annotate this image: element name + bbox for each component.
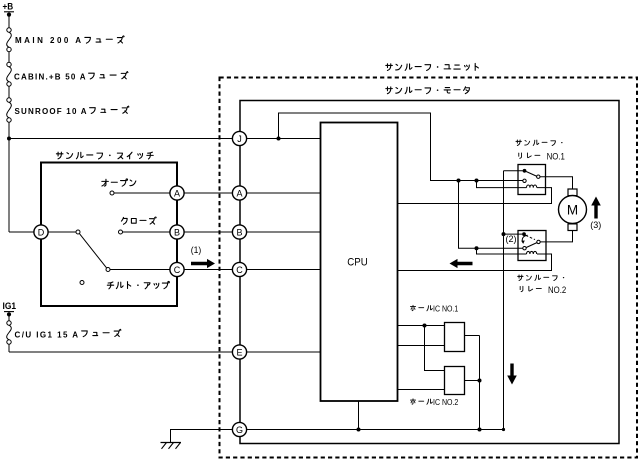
svg-text:IC NO.1: IC NO.1 bbox=[433, 305, 459, 314]
ground chassis symbol bbox=[161, 442, 182, 444]
label open bbox=[102, 179, 109, 186]
svg-text:B: B bbox=[174, 227, 180, 237]
connector B unit bbox=[232, 225, 246, 239]
connector E unit bbox=[232, 345, 246, 359]
wire B to unit bbox=[184, 231, 233, 233]
wire C to CPU bbox=[246, 269, 321, 271]
svg-text:NO.1: NO.1 bbox=[547, 152, 565, 162]
label tilt-up bbox=[107, 282, 113, 289]
wire to coil1 bbox=[477, 181, 527, 188]
contact tilt-up bbox=[106, 268, 110, 272]
wire K2 coil to CPU bbox=[398, 254, 552, 271]
relay K1 common bbox=[523, 169, 527, 173]
hall IC1 box bbox=[445, 323, 465, 352]
wire common relay2 bbox=[504, 233, 523, 235]
node coil2 tap bbox=[475, 246, 479, 250]
label hall IC no2 bbox=[410, 399, 415, 404]
wire hall supply to IC2 bbox=[425, 326, 445, 371]
svg-text:B: B bbox=[236, 227, 242, 237]
svg-text:E: E bbox=[236, 347, 242, 357]
node coil1 tap bbox=[475, 179, 479, 183]
fuse MAIN 200A bbox=[7, 28, 11, 32]
svg-text:A: A bbox=[174, 188, 180, 198]
svg-text:NO.2: NO.2 bbox=[548, 285, 566, 295]
wire to connector E bbox=[9, 351, 234, 353]
wire C to unit bbox=[184, 269, 233, 271]
hall IC2 box bbox=[445, 367, 465, 395]
cpu U1 box bbox=[321, 123, 398, 402]
wire K1 to motor bbox=[540, 177, 573, 189]
contact close bbox=[119, 230, 123, 234]
wire K2 to motor bbox=[540, 230, 572, 242]
wire IG1 feed bbox=[8, 314, 10, 323]
svg-text:CABIN.+B 50 A: CABIN.+B 50 A bbox=[14, 73, 86, 82]
svg-text:CPU: CPU bbox=[347, 257, 368, 269]
svg-text:(2): (2) bbox=[506, 234, 517, 244]
relay K2 NO contact bbox=[537, 240, 540, 243]
contact open bbox=[110, 191, 114, 195]
wire CPU to hallIC2 b bbox=[398, 389, 445, 391]
arrow direction 1 bbox=[191, 259, 215, 268]
wire CPU to ground bbox=[358, 401, 360, 430]
label sunroof relay no2 bbox=[518, 275, 523, 281]
wire A to CPU bbox=[246, 192, 321, 194]
svg-text:(1): (1) bbox=[191, 245, 202, 255]
wire common relay1 bbox=[504, 170, 523, 172]
wire to coil2 bbox=[477, 248, 527, 254]
relay K1 coil bbox=[527, 185, 537, 188]
switch arm bbox=[79, 234, 106, 269]
label close bbox=[121, 217, 127, 224]
node hall supply bbox=[423, 324, 427, 328]
relay K1 NC contact bbox=[523, 179, 526, 182]
relay K1 box bbox=[518, 165, 546, 195]
node common relay2 bbox=[502, 232, 506, 236]
relay K1 NO contact bbox=[537, 175, 540, 178]
motor M1 bbox=[559, 196, 587, 224]
wire hallIC1 out bbox=[465, 335, 480, 337]
relay K2 coil bbox=[527, 251, 537, 254]
wire supply to relay2 bbox=[459, 181, 523, 249]
svg-text:SUNROOF 10 A: SUNROOF 10 A bbox=[15, 107, 87, 116]
sunroof unit dashed box bbox=[220, 78, 638, 458]
relay K1 arm bbox=[525, 171, 537, 176]
relay K2 NC contact bbox=[523, 247, 526, 250]
wire A to unit bbox=[184, 192, 233, 194]
node relay ground bbox=[502, 428, 505, 431]
relay K2 actuate arc bbox=[522, 235, 527, 242]
node CPU ground bbox=[357, 428, 361, 432]
arrow direction 2 bbox=[450, 259, 473, 268]
wire hallIC2 out bbox=[465, 380, 480, 382]
fuse C/U IG1 15A bbox=[7, 321, 11, 325]
switch pivot wire bbox=[48, 231, 76, 233]
label sunroof relay no1 bbox=[516, 140, 521, 146]
svg-text:IC NO.2: IC NO.2 bbox=[433, 398, 459, 407]
connector D bbox=[34, 225, 48, 239]
wire E to CPU bbox=[246, 351, 321, 353]
label sunroof motor bbox=[386, 87, 393, 94]
wire hall out ground bbox=[479, 336, 481, 430]
wire supply to relays bbox=[279, 113, 523, 181]
svg-text:+B: +B bbox=[3, 1, 14, 11]
connector C switch bbox=[170, 262, 184, 276]
node supply r2 bbox=[457, 179, 461, 183]
wire K1 coil to CPU bbox=[398, 188, 552, 204]
contact unused bbox=[80, 281, 84, 285]
connector B switch bbox=[170, 225, 184, 239]
svg-text:C: C bbox=[236, 265, 243, 275]
connector C unit bbox=[232, 262, 246, 276]
svg-text:(3): (3) bbox=[590, 220, 601, 230]
connector G unit bbox=[232, 422, 246, 436]
+B terminal symbol bbox=[4, 11, 14, 13]
node junction to J bbox=[7, 137, 11, 141]
wire CPU to hallIC1 a bbox=[398, 325, 445, 327]
relay K2 box bbox=[518, 231, 546, 261]
IG1 terminal symbol bbox=[4, 311, 14, 313]
wire relay common ground bbox=[503, 171, 505, 430]
motor brushes bbox=[568, 189, 577, 196]
wire G bus bbox=[246, 429, 504, 431]
svg-text:G: G bbox=[236, 425, 243, 435]
fuse SUNROOF 10A bbox=[7, 98, 11, 102]
arrow direction 3 bbox=[591, 197, 601, 219]
wire to connector J bbox=[9, 138, 234, 140]
wire CPU to hallIC1 b bbox=[398, 345, 445, 347]
svg-text:IG1: IG1 bbox=[3, 301, 17, 311]
label sunroof unit bbox=[386, 64, 393, 71]
label hall IC no1 bbox=[410, 305, 415, 310]
svg-text:D: D bbox=[38, 227, 45, 237]
arrow direction 4 bbox=[507, 364, 517, 385]
node hall ground bbox=[478, 428, 482, 432]
connector J unit bbox=[232, 131, 246, 145]
sunroof switch box bbox=[41, 163, 177, 307]
relay K2 common bbox=[522, 232, 526, 236]
connector A unit bbox=[232, 186, 246, 200]
svg-text:A: A bbox=[236, 188, 242, 198]
connector A switch bbox=[170, 186, 184, 200]
fuse CABIN +B 50A bbox=[7, 62, 11, 66]
svg-text:J: J bbox=[237, 134, 242, 144]
wire B to CPU bbox=[246, 231, 321, 233]
relay K2 rest arm dashed bbox=[526, 235, 535, 239]
wire +B vertical feed bbox=[8, 15, 10, 30]
svg-text:M: M bbox=[567, 203, 578, 218]
wire J to CPU bbox=[246, 138, 321, 140]
wire to switch D bbox=[9, 231, 34, 233]
relay K2 arm bbox=[526, 243, 537, 248]
wire G to chassis bbox=[171, 430, 234, 443]
label sunroof switch bbox=[56, 152, 63, 159]
node hallIC2 out bbox=[478, 379, 482, 383]
sunroof motor box bbox=[240, 101, 619, 444]
node supply branch bbox=[277, 137, 281, 141]
svg-text:C: C bbox=[174, 265, 181, 275]
